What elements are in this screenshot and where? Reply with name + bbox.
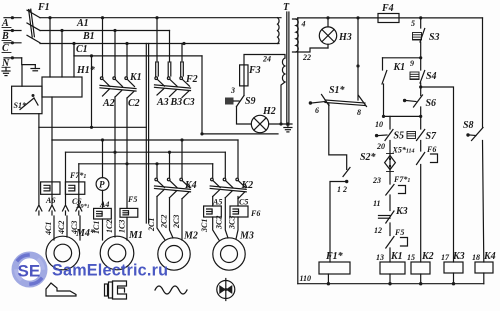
wire drop A1 to H1 bbox=[49, 18, 51, 77]
control top rail bbox=[298, 16, 483, 19]
motor M3 leads bbox=[213, 198, 238, 240]
svg-text:A4: A4 bbox=[99, 200, 109, 209]
svg-text:C5: C5 bbox=[239, 198, 248, 207]
svg-text:F6: F6 bbox=[426, 145, 436, 154]
svg-text:B1: B1 bbox=[82, 31, 95, 42]
svg-text:4: 4 bbox=[301, 20, 306, 29]
svg-text:K1: K1 bbox=[393, 62, 406, 73]
svg-text:F5: F5 bbox=[127, 195, 137, 204]
control bottom rail bbox=[298, 283, 484, 285]
control left rail bbox=[298, 19, 311, 284]
svg-text:24: 24 bbox=[262, 55, 271, 64]
input terminal B bbox=[1, 29, 21, 42]
ground under N bbox=[2, 67, 10, 75]
svg-text:T: T bbox=[283, 2, 290, 13]
svg-text:K2: K2 bbox=[241, 180, 254, 191]
svg-text:H3: H3 bbox=[338, 32, 352, 43]
svg-text:3C3: 3C3 bbox=[228, 216, 237, 230]
svg-text:15: 15 bbox=[407, 253, 415, 262]
svg-text:S8: S8 bbox=[463, 120, 474, 131]
svg-text:1C1: 1C1 bbox=[92, 221, 101, 234]
svg-text:X5*114: X5*114 bbox=[392, 146, 415, 155]
svg-text:K1: K1 bbox=[129, 72, 142, 83]
svg-text:11: 11 bbox=[373, 199, 381, 208]
svg-text:SE: SE bbox=[18, 262, 41, 281]
svg-text:A6: A6 bbox=[45, 196, 55, 205]
wire staircase line 2 bbox=[52, 138, 238, 141]
motor M2 leads bbox=[157, 197, 182, 241]
fuse F4 bbox=[378, 3, 399, 23]
relay P bbox=[96, 140, 109, 190]
motor M3 bbox=[213, 231, 254, 271]
svg-text:S9: S9 bbox=[245, 96, 256, 107]
svg-text:K1: K1 bbox=[390, 251, 403, 262]
ground at transformer bbox=[284, 124, 292, 132]
wire drop B1 to H1 bbox=[61, 31, 63, 78]
icon lathe chuck bbox=[105, 281, 127, 299]
switch S1* control bbox=[309, 18, 367, 117]
switch S9 bbox=[225, 86, 256, 107]
bus C1 bbox=[40, 42, 279, 55]
wire S4 to K3 branch bbox=[421, 87, 454, 262]
wire y56 branch line bbox=[74, 44, 202, 58]
thermal heater A5 bbox=[204, 197, 223, 218]
svg-text:K3: K3 bbox=[452, 251, 465, 262]
svg-text:M2: M2 bbox=[183, 231, 198, 242]
wire S1 to S2 bbox=[329, 104, 347, 169]
wire staircase line 4 bbox=[79, 162, 213, 204]
svg-text:3: 3 bbox=[230, 86, 235, 95]
svg-text:S7: S7 bbox=[426, 131, 438, 142]
svg-text:S4: S4 bbox=[426, 71, 437, 82]
svg-text:K4: K4 bbox=[184, 180, 197, 191]
wire x91.5 drop bbox=[90, 56, 93, 129]
labels 3C1 3C2 3C3 bbox=[200, 216, 237, 233]
wire M1 lead2 bbox=[114, 97, 116, 237]
svg-text:K2: K2 bbox=[421, 251, 434, 262]
transformer secondary winding 2 bbox=[244, 55, 285, 125]
thermal heater A6 bbox=[41, 182, 60, 205]
labels 2C1 2C2 2C3 bbox=[147, 215, 181, 232]
svg-text:F2: F2 bbox=[185, 74, 198, 85]
svg-text:P: P bbox=[99, 180, 105, 190]
svg-text:1 2: 1 2 bbox=[337, 185, 347, 194]
transformer T core bbox=[283, 2, 290, 125]
svg-text:F1*: F1* bbox=[325, 251, 344, 262]
svg-text:3C1: 3C1 bbox=[200, 219, 209, 233]
svg-text:M3: M3 bbox=[239, 231, 254, 242]
svg-text:22: 22 bbox=[302, 53, 311, 62]
svg-text:4C1: 4C1 bbox=[44, 222, 53, 236]
svg-text:2C1: 2C1 bbox=[147, 218, 156, 232]
svg-text:S6: S6 bbox=[426, 98, 437, 109]
svg-text:H2: H2 bbox=[262, 106, 276, 117]
transformer secondary winding 1 bbox=[293, 18, 329, 62]
wire N to S1 box bbox=[21, 65, 23, 87]
lamp H3 bbox=[319, 18, 351, 48]
input terminal N bbox=[1, 56, 22, 69]
wire staircase line 1 bbox=[39, 126, 146, 128]
input terminal C bbox=[2, 41, 21, 54]
contact F7*1 bbox=[373, 175, 410, 211]
svg-text:23: 23 bbox=[372, 176, 381, 185]
svg-text:17: 17 bbox=[441, 253, 450, 262]
button S5 bbox=[375, 116, 404, 151]
svg-text:8: 8 bbox=[357, 108, 361, 117]
fuse F3 bbox=[230, 65, 261, 95]
svg-text:1C3: 1C3 bbox=[118, 220, 127, 233]
motor M1 bbox=[100, 230, 143, 270]
button S7 bbox=[407, 116, 437, 151]
transformer primary winding bbox=[278, 18, 280, 44]
switch S1* in box bbox=[12, 86, 42, 114]
coil K4 bbox=[472, 251, 496, 284]
svg-text:F7*1: F7*1 bbox=[69, 171, 86, 180]
contact K3 bbox=[374, 206, 408, 236]
coil K1 bbox=[380, 251, 405, 285]
motor M2 bbox=[158, 231, 198, 271]
svg-text:C2: C2 bbox=[128, 98, 140, 109]
wire M1 lead3 + thermal F5 heater bbox=[120, 98, 138, 240]
svg-text:S2*: S2* bbox=[360, 152, 377, 163]
contact F6 bbox=[407, 145, 438, 262]
button S3 bbox=[410, 18, 440, 68]
N wire to chassis ground bbox=[22, 58, 40, 71]
svg-text:18: 18 bbox=[472, 253, 480, 262]
svg-text:K3: K3 bbox=[395, 206, 408, 217]
input terminal A bbox=[1, 16, 21, 29]
svg-text:A5: A5 bbox=[212, 198, 222, 207]
thermal heater A4 bbox=[94, 190, 112, 219]
svg-text:F5: F5 bbox=[394, 228, 404, 237]
coil K3 bbox=[441, 251, 465, 285]
svg-text:2C3: 2C3 bbox=[172, 215, 181, 229]
wire row 10 bbox=[375, 115, 421, 129]
motor M4 leads bbox=[54, 216, 80, 240]
svg-text:3C2: 3C2 bbox=[215, 216, 224, 230]
svg-text:M1: M1 bbox=[128, 230, 143, 241]
svg-text:2C2: 2C2 bbox=[160, 215, 169, 229]
svg-text:12: 12 bbox=[374, 226, 382, 235]
svg-text:6: 6 bbox=[315, 106, 319, 115]
svg-text:F1: F1 bbox=[37, 2, 50, 13]
switch F1 bbox=[27, 2, 50, 43]
svg-text:F6: F6 bbox=[250, 209, 260, 218]
svg-text:H1*: H1* bbox=[76, 65, 96, 76]
svg-text:110: 110 bbox=[300, 274, 312, 283]
contactor K1 main poles bbox=[100, 18, 142, 109]
wire H2 return bbox=[269, 122, 292, 125]
thermal heater C6 bbox=[65, 182, 84, 206]
svg-text:A1: A1 bbox=[76, 18, 89, 29]
icon fan bbox=[217, 279, 235, 301]
wire S1 box down bbox=[38, 114, 40, 204]
wire H1 bottom bbox=[51, 97, 53, 140]
svg-text:A3: A3 bbox=[156, 97, 169, 108]
box H1* local light device bbox=[42, 65, 96, 97]
svg-text:K4: K4 bbox=[483, 251, 496, 262]
coil K2 bbox=[411, 251, 434, 285]
svg-text:S1*: S1* bbox=[329, 85, 346, 96]
button S4 bbox=[410, 58, 437, 89]
connector X9 arrows bbox=[36, 205, 82, 215]
labels 1C1 1C2 1C3 bbox=[92, 220, 127, 234]
svg-text:C1: C1 bbox=[76, 44, 88, 55]
fuse group F2 poles A3 B3 C3 bbox=[155, 18, 198, 108]
svg-text:13: 13 bbox=[376, 253, 384, 262]
coil F1* bbox=[319, 251, 350, 285]
switch S8 and right rail bbox=[463, 18, 484, 262]
svg-text:F3: F3 bbox=[248, 65, 261, 76]
svg-text:5: 5 bbox=[411, 19, 415, 28]
svg-text:SamElectric.ru: SamElectric.ru bbox=[52, 262, 168, 280]
contactor K4 poles bbox=[155, 140, 197, 199]
wire staircase line 3 bbox=[66, 151, 226, 204]
wire drop C1 to H1 bbox=[73, 44, 75, 78]
wire S2 to F1 coil bbox=[330, 182, 347, 263]
svg-text:20: 20 bbox=[376, 142, 385, 151]
svg-text:A2: A2 bbox=[102, 98, 115, 109]
thermal heater C5 bbox=[230, 197, 260, 219]
svg-text:1C2: 1C2 bbox=[105, 220, 114, 233]
svg-text:9: 9 bbox=[410, 59, 414, 68]
connector X5 bbox=[372, 141, 415, 186]
wire S9 to H2 bbox=[237, 107, 252, 125]
switch S2* bbox=[337, 152, 377, 194]
icon wave bbox=[155, 286, 187, 294]
bus B1 bbox=[40, 29, 170, 42]
contact S6 bbox=[403, 87, 436, 118]
icon feed slide bbox=[46, 283, 76, 296]
bus A1 bbox=[40, 16, 281, 29]
svg-text:S3: S3 bbox=[429, 32, 440, 43]
motor M4 bbox=[46, 228, 96, 270]
svg-text:S5: S5 bbox=[394, 131, 405, 142]
contact K1 aux bbox=[382, 58, 421, 117]
contactor K2 poles bbox=[210, 140, 253, 199]
svg-text:10: 10 bbox=[375, 120, 383, 129]
wire M4 lead 2 upper bbox=[51, 140, 53, 204]
svg-text:F4: F4 bbox=[381, 3, 394, 14]
svg-text:4C2: 4C2 bbox=[57, 221, 66, 235]
svg-text:S1*: S1* bbox=[14, 101, 27, 110]
wire x202 drop and line to transformer bbox=[200, 56, 278, 136]
svg-text:B3: B3 bbox=[170, 97, 183, 108]
labels 4C1 4C2 4C3 bbox=[44, 221, 79, 236]
lamp H2 bbox=[251, 106, 275, 133]
wire M1 lead1 bbox=[102, 219, 104, 240]
svg-text:F7*1: F7*1 bbox=[393, 175, 410, 184]
wire pair mid bbox=[146, 44, 148, 224]
contact F5 bbox=[376, 228, 408, 262]
svg-text:C3: C3 bbox=[183, 97, 195, 108]
watermark logo SE bbox=[15, 255, 44, 284]
